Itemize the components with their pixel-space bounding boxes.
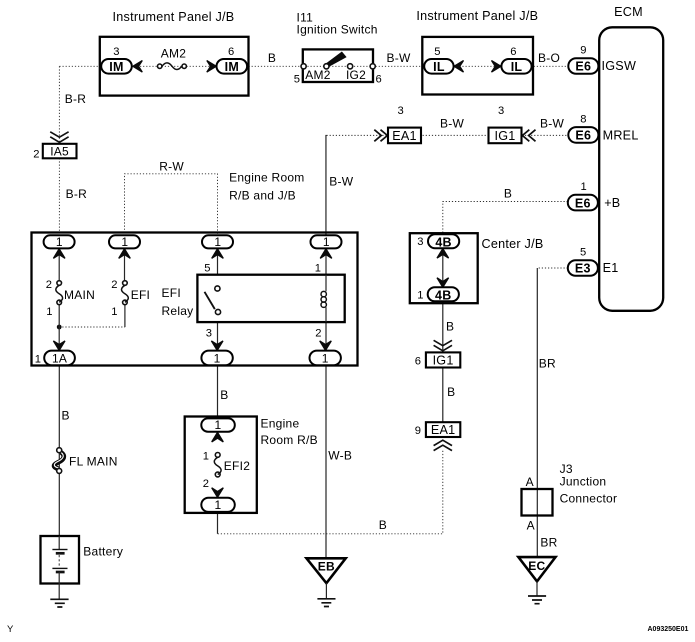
- fusible link FL MAIN: [54, 448, 118, 474]
- svg-text:B: B: [220, 388, 228, 402]
- svg-text:Engine Room: Engine Room: [229, 171, 304, 185]
- svg-text:1: 1: [214, 235, 221, 249]
- wire label B-W (ignition switch to IL5): [386, 51, 411, 65]
- svg-text:IL: IL: [511, 60, 523, 74]
- svg-text:3: 3: [113, 46, 119, 58]
- label: drawing number A093250E01: [648, 626, 689, 633]
- svg-text:8: 8: [580, 113, 586, 125]
- svg-text:1: 1: [323, 235, 330, 249]
- svg-text:MAIN: MAIN: [64, 288, 95, 302]
- wire label B-W (vertical to relay coil): [329, 175, 354, 189]
- svg-text:+B: +B: [604, 196, 620, 210]
- svg-text:1: 1: [214, 351, 221, 365]
- ignition switch lever: [327, 52, 345, 65]
- fuse MAIN: [46, 279, 95, 318]
- svg-text:Ignition Switch: Ignition Switch: [297, 23, 378, 37]
- wire label B-O (IL6 to ECM IGSW): [538, 51, 560, 65]
- wire: junction dot down to 1A connector: [58, 327, 60, 351]
- svg-text:EFI2: EFI2: [224, 459, 250, 473]
- svg-text:Relay: Relay: [162, 304, 194, 318]
- connector IL pin 6: [501, 46, 531, 74]
- svg-text:1: 1: [417, 289, 423, 301]
- chevron: female connector above IG1-6: [434, 340, 452, 351]
- svg-text:4B: 4B: [435, 235, 451, 249]
- wire MREL row B-W: ECM E6-8 to IG1 to EA1: [326, 134, 570, 136]
- svg-text:B-W: B-W: [386, 51, 411, 65]
- connector 4B pin 3: [417, 234, 459, 249]
- EFI relay switch contact: [205, 286, 221, 315]
- svg-text:1: 1: [581, 181, 587, 193]
- svg-text:B-R: B-R: [66, 187, 88, 201]
- svg-text:B: B: [446, 320, 454, 334]
- svg-text:EB: EB: [318, 560, 335, 574]
- svg-text:1: 1: [121, 235, 128, 249]
- svg-text:AM2: AM2: [305, 68, 331, 82]
- label: Instrument Panel J/B (right): [416, 9, 538, 23]
- arrow: into IL pin 6 (right): [492, 61, 502, 73]
- svg-text:4B: 4B: [435, 288, 451, 302]
- svg-text:E6: E6: [575, 129, 591, 143]
- svg-text:W-B: W-B: [328, 449, 352, 463]
- svg-text:B: B: [379, 518, 387, 532]
- connector 4B pin 1: [417, 287, 459, 302]
- wire B-W vertical: EA1 row down to EFI relay coil pin 1: [325, 135, 327, 236]
- connector IM pin 3: [101, 46, 132, 74]
- fuse EFI: [111, 279, 150, 318]
- connector E6 pin 1 +B: [568, 181, 621, 210]
- wire W-B: relay pin 2 down to EB ground triangle: [325, 366, 327, 559]
- Engine Room R/B and J/B main box: [32, 233, 358, 366]
- junction connector J3: [522, 462, 618, 533]
- svg-text:Junction: Junction: [560, 475, 607, 489]
- main J/B bottom oval column 3: [201, 351, 232, 366]
- svg-text:AM2: AM2: [161, 47, 187, 61]
- svg-text:9: 9: [415, 425, 421, 437]
- svg-text:IG2: IG2: [346, 68, 366, 82]
- svg-text:B: B: [447, 385, 455, 399]
- wire label B-R (lower): [66, 187, 88, 201]
- connector E6 pin 8 MREL: [568, 113, 638, 142]
- ground triangle EC: [518, 557, 555, 581]
- arrow: up into main J/B oval column 2: [119, 249, 131, 258]
- wire: relay pin 2 to bottom oval: [325, 322, 327, 351]
- wire label B (+B feed): [504, 187, 512, 201]
- svg-text:2: 2: [46, 279, 52, 291]
- arrow: down into bottom oval column 4: [320, 341, 332, 351]
- arrow: down into 1A connector: [53, 341, 65, 351]
- svg-text:IA5: IA5: [50, 144, 69, 158]
- wire: MAIN fuse output to junction dot: [58, 305, 60, 328]
- main J/B top oval column 2: [109, 235, 140, 249]
- wire label W-B: [328, 449, 352, 463]
- svg-text:A: A: [527, 519, 535, 533]
- svg-text:IM: IM: [225, 60, 239, 74]
- wire label R-W: [159, 160, 184, 174]
- wire: junction of MAIN and EFI fuse outputs: [59, 326, 125, 328]
- svg-text:2: 2: [203, 478, 209, 490]
- svg-text:B-W: B-W: [440, 117, 465, 131]
- svg-text:Y: Y: [7, 624, 14, 635]
- arrow: down into bottom oval column 3: [211, 341, 223, 351]
- svg-text:EA1: EA1: [431, 423, 456, 437]
- Engine Room R/B box (EFI2): [185, 417, 318, 513]
- svg-text:1: 1: [35, 353, 41, 365]
- connector IA5 pin 2: [33, 144, 76, 161]
- svg-text:1: 1: [46, 306, 52, 318]
- wire B-R: from IM pin3 down to IA5 connector: [58, 66, 60, 144]
- svg-text:1: 1: [56, 235, 63, 249]
- wire: ignition feed row (IM to AM2 switch to IL to ECM IGSW): [59, 65, 568, 67]
- wire label B (relay 3 output): [220, 388, 228, 402]
- svg-text:3: 3: [498, 105, 504, 117]
- wire: EFI fuse output down to junction row: [124, 305, 126, 328]
- svg-text:1: 1: [203, 451, 209, 463]
- arrow: down into Engine Room R/B bottom oval: [212, 488, 224, 498]
- connector EA1 pin 3: [388, 105, 421, 143]
- svg-text:IG1: IG1: [433, 354, 454, 368]
- svg-text:1: 1: [315, 263, 321, 275]
- wire label BR (below J3): [540, 536, 557, 550]
- wire BR: down through J3 junction connector to EC ground: [536, 268, 538, 558]
- wire B: IG1-6 down to EA1-9: [442, 368, 444, 423]
- svg-text:1: 1: [215, 498, 222, 512]
- fuse AM2: [158, 47, 187, 70]
- wire: relay pin 3 to bottom oval: [217, 322, 219, 351]
- svg-text:A: A: [526, 475, 534, 489]
- svg-text:E1: E1: [603, 261, 619, 275]
- ground: battery: [50, 599, 68, 607]
- svg-text:3: 3: [206, 328, 212, 340]
- svg-text:5: 5: [294, 74, 300, 86]
- wire label B (1A to FL MAIN): [62, 409, 70, 423]
- arrow: up into main J/B oval column 3: [212, 249, 224, 258]
- svg-text:EC: EC: [528, 559, 545, 573]
- wire B: Center J/B 4B-1 down to IG1-6: [442, 301, 444, 352]
- svg-text:A093250E01: A093250E01: [648, 626, 689, 633]
- wire B: EA1-9 down and left to EFI2 output: [218, 451, 443, 534]
- label: Instrument Panel J/B (left): [113, 10, 235, 24]
- svg-text:3: 3: [398, 105, 404, 117]
- connector E6 pin 9 IGSW: [568, 44, 636, 74]
- svg-text:2: 2: [33, 148, 39, 160]
- svg-text:6: 6: [376, 74, 382, 86]
- ignition switch I11 box: [303, 49, 373, 82]
- label: page code Y: [7, 624, 14, 635]
- svg-text:ECM: ECM: [614, 5, 643, 19]
- svg-text:R-W: R-W: [159, 160, 184, 174]
- main J/B top oval column 4: [311, 235, 342, 249]
- ignition switch terminal labels: [294, 68, 382, 86]
- arrow: up into main J/B oval column 4: [320, 249, 332, 258]
- svg-text:2: 2: [111, 279, 117, 291]
- svg-text:E6: E6: [575, 196, 591, 210]
- ignition switch terminals: [301, 64, 375, 69]
- svg-text:1: 1: [215, 418, 222, 432]
- chevron: male connector into EA1-3: [374, 130, 387, 142]
- arrow: up into main J/B oval column 1: [53, 249, 65, 258]
- svg-text:B-W: B-W: [329, 175, 354, 189]
- svg-text:Connector: Connector: [560, 492, 618, 506]
- wire: main J/B column 2 internal (oval 1 to EFI fuse): [124, 248, 126, 281]
- EFI relay coil: [321, 275, 326, 322]
- wire B: relay pin3 output down to Engine Room R/B: [217, 366, 219, 419]
- svg-text:B-O: B-O: [538, 51, 560, 65]
- arrow: down into Center J/B 4B-1: [437, 278, 449, 288]
- svg-text:E3: E3: [575, 262, 591, 276]
- connector IL pin 5: [424, 46, 453, 74]
- Engine Room R/B bottom oval: [201, 498, 235, 512]
- svg-text:B-R: B-R: [65, 92, 87, 106]
- svg-text:Engine: Engine: [261, 417, 300, 431]
- svg-text:B: B: [62, 409, 70, 423]
- svg-text:9: 9: [580, 44, 586, 56]
- ground: EB: [317, 599, 335, 607]
- Instrument Panel J/B box (left, AM2 fuse): [100, 37, 249, 96]
- chevron: female connector above IA5: [50, 132, 68, 143]
- wire: main J/B column 1 internal (oval 1 to MAIN fuse): [58, 248, 60, 281]
- wire label B (EFI2 to EA1 row): [379, 518, 387, 532]
- wire B-R: from IA5 down to Engine Room J/B: [58, 158, 60, 233]
- svg-text:R/B and J/B: R/B and J/B: [229, 189, 296, 203]
- svg-text:2: 2: [315, 328, 321, 340]
- svg-text:EFI: EFI: [131, 288, 150, 302]
- svg-text:6: 6: [228, 46, 234, 58]
- label: I11 Ignition Switch: [297, 11, 378, 37]
- ECM box: [599, 5, 663, 311]
- label: Engine Room R/B and J/B: [229, 171, 304, 203]
- wire label B-W (IG1 to ECM MREL): [540, 117, 565, 131]
- svg-text:6: 6: [415, 356, 421, 368]
- chevron: female connector below EA1-9: [434, 440, 452, 450]
- wire R-W: EFI fuse to EFI relay pin 5: [125, 174, 218, 236]
- svg-text:IM: IM: [109, 60, 123, 74]
- wire: main J/B column 3 internal (oval to relay pin 5): [217, 248, 219, 274]
- svg-text:B: B: [268, 51, 276, 65]
- EC ground stem: [536, 581, 538, 596]
- svg-text:EFI: EFI: [162, 286, 181, 300]
- wire label B (below Center J/B): [446, 320, 454, 334]
- svg-text:BR: BR: [540, 536, 557, 550]
- wire B: ECM E6-1 +B to Center J/B 4B-3: [443, 202, 568, 236]
- arrow: into IM pin 6 (right): [207, 61, 217, 73]
- svg-text:MREL: MREL: [603, 128, 639, 142]
- svg-text:5: 5: [204, 263, 210, 275]
- svg-text:IL: IL: [433, 60, 445, 74]
- battery ground stem: [58, 584, 60, 600]
- wire: EFI2 bottom oval down to B row: [217, 512, 219, 534]
- ground: EC: [528, 596, 546, 604]
- wire label B (IM6 to ignition switch): [268, 51, 276, 65]
- svg-text:IGSW: IGSW: [602, 59, 637, 73]
- ground triangle EB: [307, 558, 346, 583]
- connector IG1 pin 3: [489, 105, 522, 143]
- svg-text:BR: BR: [539, 356, 556, 370]
- svg-text:1: 1: [322, 351, 329, 365]
- svg-text:5: 5: [580, 247, 586, 259]
- wire label BR (E1 column): [539, 356, 556, 370]
- svg-text:5: 5: [434, 46, 440, 58]
- svg-text:E6: E6: [575, 60, 591, 74]
- Center J/B box: [410, 233, 544, 303]
- connector IM pin 6: [217, 46, 248, 74]
- arrow: into IM pin 3 (left): [133, 61, 143, 73]
- svg-text:IG1: IG1: [494, 129, 515, 143]
- svg-text:EA1: EA1: [392, 129, 417, 143]
- main J/B top oval column 3: [202, 235, 233, 249]
- svg-text:6: 6: [510, 46, 516, 58]
- EFI relay pin labels: [204, 263, 321, 340]
- Engine Room R/B top oval: [201, 418, 235, 432]
- svg-text:B: B: [504, 187, 512, 201]
- wire: main J/B column 4 internal (oval to relay pin 1): [325, 248, 327, 274]
- svg-text:Center J/B: Center J/B: [482, 237, 544, 251]
- svg-text:Battery: Battery: [83, 545, 123, 559]
- svg-text:B-W: B-W: [540, 117, 565, 131]
- wire: battery column below 1A (B, FL MAIN, battery): [58, 366, 60, 537]
- EB ground stem: [325, 583, 327, 599]
- battery: [41, 536, 124, 584]
- svg-text:Room R/B: Room R/B: [261, 433, 318, 447]
- arrow: up into Center J/B 4B-3: [437, 249, 449, 259]
- junction dot: [57, 325, 62, 330]
- wire label B-R (upper): [65, 92, 87, 106]
- Instrument Panel J/B box (right, IL): [422, 37, 533, 95]
- svg-text:3: 3: [417, 236, 423, 248]
- connector EA1 pin 9: [415, 422, 461, 437]
- fuse EFI2: [203, 451, 250, 491]
- wire label B (IG1 to EA1): [447, 385, 455, 399]
- arrow: into IL pin 5 (left): [454, 61, 464, 73]
- wire: Center J/B internal between 4B connectors: [442, 248, 444, 287]
- wire E1: ECM E3-5 to BR column: [537, 267, 568, 269]
- connector E3 pin 5 E1: [568, 247, 619, 276]
- svg-text:FL MAIN: FL MAIN: [69, 455, 118, 469]
- svg-text:1: 1: [111, 306, 117, 318]
- wire label B-W (EA1 to IG1): [440, 117, 465, 131]
- main J/B top oval column 1: [44, 235, 75, 249]
- svg-text:Instrument Panel J/B: Instrument Panel J/B: [416, 9, 538, 23]
- connector IG1 pin 6: [415, 352, 461, 367]
- svg-text:1A: 1A: [52, 351, 67, 365]
- connector 1A pin 1: [35, 351, 75, 366]
- main J/B bottom oval column 4: [310, 351, 341, 366]
- EFI relay box: [162, 275, 345, 322]
- arrow: up into Engine Room R/B top oval: [212, 432, 224, 442]
- chevron: male connector into IG1-3: [522, 130, 535, 142]
- svg-text:Instrument Panel J/B: Instrument Panel J/B: [113, 10, 235, 24]
